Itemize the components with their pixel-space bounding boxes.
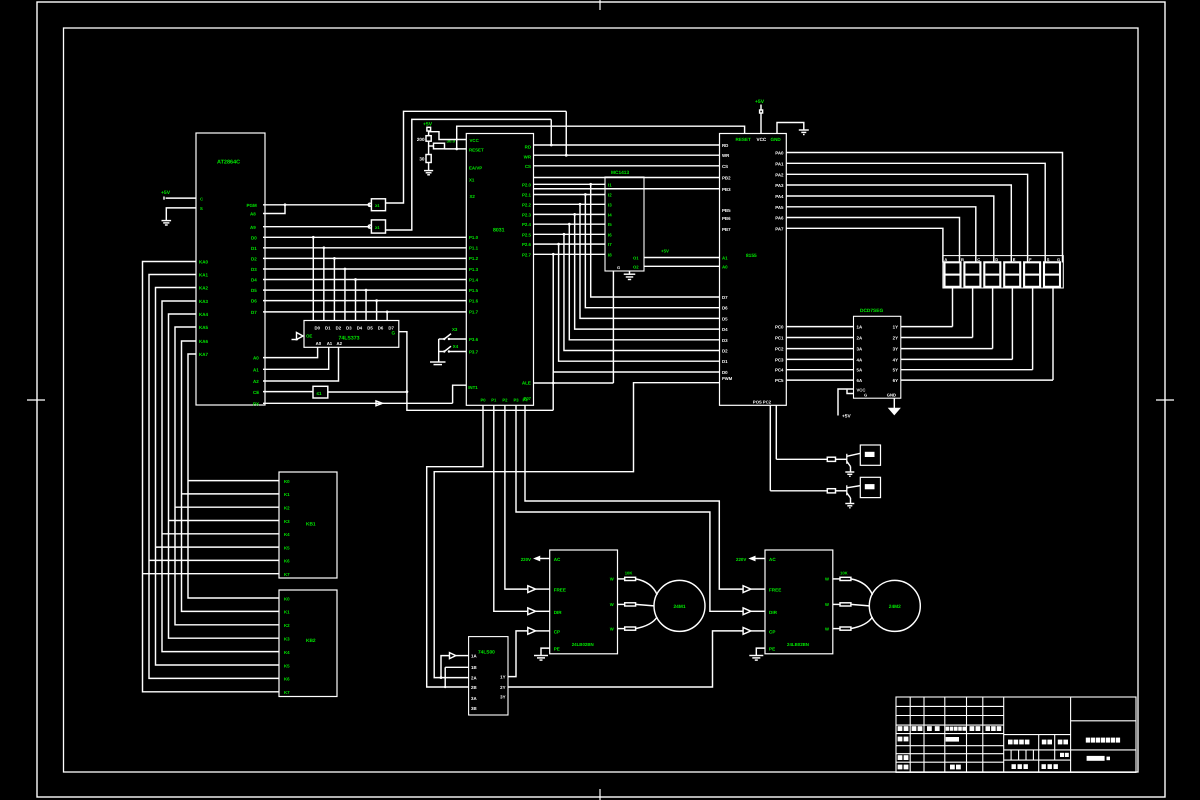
- svg-text:CE: CE: [253, 390, 259, 395]
- svg-text:G: G: [617, 265, 620, 270]
- svg-text:D1: D1: [325, 326, 331, 331]
- svg-text:PX: PX: [253, 402, 259, 407]
- svg-text:3Y: 3Y: [893, 347, 898, 352]
- svg-text:K1: K1: [284, 610, 290, 615]
- svg-text:GND: GND: [887, 393, 896, 398]
- svg-text:K7: K7: [284, 572, 290, 577]
- svg-text:24LB02BN: 24LB02BN: [572, 642, 594, 647]
- svg-text:1A: 1A: [471, 654, 477, 659]
- svg-text:G: G: [392, 331, 396, 336]
- svg-text:AT2864C: AT2864C: [217, 160, 240, 166]
- svg-text:3B: 3B: [471, 706, 477, 711]
- svg-text:P4: P4: [522, 398, 528, 403]
- svg-text:I6: I6: [608, 232, 612, 237]
- svg-text:P1.0: P1.0: [469, 235, 479, 240]
- svg-text:MC1413: MC1413: [611, 170, 629, 176]
- svg-text:RESET: RESET: [736, 137, 752, 142]
- svg-text:200: 200: [417, 137, 425, 142]
- svg-text:220V: 220V: [521, 557, 531, 562]
- svg-text:D7: D7: [251, 310, 257, 315]
- svg-text:A1: A1: [722, 256, 728, 261]
- svg-text:D0: D0: [722, 370, 728, 375]
- svg-text:I3: I3: [608, 202, 612, 207]
- svg-text:WR: WR: [524, 155, 532, 160]
- svg-text:2A: 2A: [471, 676, 477, 681]
- svg-text:24LB02BN: 24LB02BN: [787, 642, 809, 647]
- svg-text:≤1: ≤1: [317, 391, 323, 396]
- svg-text:DIR: DIR: [769, 610, 778, 615]
- svg-text:+5V: +5V: [842, 414, 851, 420]
- svg-text:I8: I8: [608, 252, 612, 257]
- svg-text:A1: A1: [327, 341, 333, 346]
- svg-text:6Y: 6Y: [893, 378, 898, 383]
- svg-text:DIR: DIR: [554, 610, 563, 615]
- svg-text:K2: K2: [284, 623, 290, 628]
- svg-text:K3: K3: [284, 519, 290, 524]
- svg-text:2Y: 2Y: [893, 336, 898, 341]
- svg-text:I4: I4: [608, 212, 612, 217]
- svg-text:KB2: KB2: [306, 638, 316, 644]
- svg-text:O1: O1: [633, 256, 639, 261]
- svg-text:P0: P0: [480, 398, 486, 403]
- svg-text:5A: 5A: [857, 368, 863, 373]
- svg-text:P2.5: P2.5: [522, 232, 532, 237]
- svg-text:5Y: 5Y: [893, 368, 898, 373]
- svg-text:K2: K2: [284, 506, 290, 511]
- svg-text:P1.2: P1.2: [469, 256, 479, 261]
- svg-text:220V: 220V: [736, 557, 746, 562]
- svg-text:C: C: [977, 257, 980, 262]
- svg-text:A0: A0: [722, 264, 728, 269]
- svg-text:E: E: [1013, 257, 1016, 262]
- svg-text:D: D: [995, 257, 998, 262]
- svg-text:PA7: PA7: [775, 226, 784, 231]
- svg-text:1Y: 1Y: [893, 325, 898, 330]
- svg-text:D3: D3: [722, 338, 728, 343]
- svg-text:CS: CS: [525, 164, 531, 169]
- svg-text:I2: I2: [608, 193, 612, 198]
- svg-text:PA3: PA3: [775, 183, 784, 188]
- svg-text:I5: I5: [608, 222, 612, 227]
- svg-text:S: S: [1047, 257, 1050, 262]
- svg-text:CP: CP: [554, 629, 560, 634]
- svg-text:PB2: PB2: [722, 176, 731, 181]
- svg-text:P2.4: P2.4: [522, 222, 532, 227]
- svg-text:≥1: ≥1: [375, 225, 380, 230]
- svg-text:PA1: PA1: [775, 161, 784, 166]
- svg-text:W: W: [610, 602, 614, 607]
- svg-text:A8: A8: [250, 212, 256, 217]
- svg-text:D0: D0: [251, 235, 257, 240]
- svg-text:ALE: ALE: [522, 381, 531, 386]
- svg-text:+5V: +5V: [161, 190, 171, 196]
- svg-text:K1: K1: [284, 492, 290, 497]
- svg-text:74LS00: 74LS00: [478, 650, 495, 656]
- svg-text:D6: D6: [251, 299, 257, 304]
- svg-text:KA5: KA5: [199, 325, 208, 330]
- svg-text:D3: D3: [251, 267, 257, 272]
- svg-text:P1.1: P1.1: [469, 246, 479, 251]
- svg-text:AC: AC: [554, 557, 561, 562]
- svg-text:P1: P1: [491, 398, 497, 403]
- svg-text:AC: AC: [769, 557, 776, 562]
- svg-text:D1: D1: [251, 246, 257, 251]
- svg-text:PC3: PC3: [775, 357, 784, 362]
- svg-text:PA2: PA2: [775, 172, 784, 177]
- svg-text:D4: D4: [722, 327, 728, 332]
- svg-text:8031: 8031: [493, 228, 505, 234]
- svg-text:C: C: [200, 196, 203, 201]
- svg-text:K4: K4: [284, 532, 290, 537]
- svg-text:S: S: [200, 206, 203, 211]
- svg-text:K0: K0: [284, 479, 290, 484]
- svg-text:PA4: PA4: [775, 194, 784, 199]
- svg-text:K4: K4: [284, 650, 290, 655]
- svg-text:30: 30: [419, 157, 425, 162]
- svg-text:10K: 10K: [625, 571, 633, 576]
- svg-text:≥1: ≥1: [375, 203, 380, 208]
- svg-text:D4: D4: [251, 278, 257, 283]
- svg-text:P2.7: P2.7: [522, 252, 532, 257]
- svg-text:CP: CP: [769, 629, 775, 634]
- svg-text:24M2: 24M2: [889, 604, 901, 610]
- svg-text:OE: OE: [306, 334, 312, 339]
- svg-text:PB5: PB5: [722, 208, 731, 213]
- svg-text:KA4: KA4: [199, 312, 208, 317]
- svg-text:PC1: PC1: [775, 336, 784, 341]
- svg-text:K5: K5: [284, 545, 290, 550]
- svg-text:D6: D6: [378, 326, 384, 331]
- svg-text:D5: D5: [251, 288, 257, 293]
- svg-text:P1.5: P1.5: [469, 288, 479, 293]
- svg-text:D0: D0: [315, 326, 321, 331]
- svg-text:+5V: +5V: [755, 99, 765, 105]
- svg-text:24M1: 24M1: [674, 604, 686, 610]
- svg-text:FREE: FREE: [769, 588, 781, 593]
- svg-text:A0: A0: [316, 341, 322, 346]
- svg-text:A0: A0: [253, 356, 259, 361]
- svg-text:CS: CS: [722, 164, 728, 169]
- svg-text:PB6: PB6: [722, 216, 731, 221]
- svg-text:P2.3: P2.3: [522, 212, 532, 217]
- svg-text:PC0: PC0: [775, 325, 784, 330]
- svg-text:PB3: PB3: [722, 187, 731, 192]
- svg-text:P1.4: P1.4: [469, 277, 479, 282]
- svg-text:P2: P2: [502, 398, 508, 403]
- svg-text:I7: I7: [608, 242, 612, 247]
- svg-text:D2: D2: [336, 326, 342, 331]
- svg-text:VCC: VCC: [470, 138, 480, 143]
- svg-text:PWM: PWM: [722, 376, 733, 381]
- svg-text:D5: D5: [367, 326, 373, 331]
- svg-text:KA6: KA6: [199, 339, 208, 344]
- svg-text:P3.6: P3.6: [469, 337, 479, 342]
- svg-text:KA0: KA0: [199, 260, 208, 265]
- svg-text:D2: D2: [251, 256, 257, 261]
- svg-text:EA/VP: EA/VP: [469, 166, 482, 171]
- svg-text:O2: O2: [633, 264, 639, 269]
- svg-text:W: W: [610, 577, 614, 582]
- svg-text:2Y: 2Y: [500, 685, 505, 690]
- svg-text:RD: RD: [525, 145, 531, 150]
- svg-text:W: W: [825, 626, 829, 631]
- svg-text:POS PC2: POS PC2: [753, 400, 772, 405]
- svg-text:D1: D1: [722, 359, 728, 364]
- svg-text:DCD7SEG: DCD7SEG: [860, 308, 883, 314]
- svg-text:PA0: PA0: [775, 151, 784, 156]
- svg-text:X1: X1: [469, 178, 475, 183]
- svg-text:PGM: PGM: [247, 203, 258, 208]
- svg-text:PE: PE: [554, 647, 560, 652]
- svg-text:PB7: PB7: [722, 227, 731, 232]
- svg-text:G: G: [864, 393, 867, 398]
- svg-text:P3: P3: [513, 398, 519, 403]
- svg-text:X4: X4: [453, 344, 459, 349]
- svg-text:A: A: [944, 257, 947, 262]
- svg-text:I1: I1: [608, 182, 612, 187]
- svg-text:K5: K5: [284, 663, 290, 668]
- svg-text:A9: A9: [250, 225, 256, 230]
- svg-text:1A: 1A: [857, 325, 863, 330]
- svg-text:K6: K6: [284, 677, 290, 682]
- svg-text:D7: D7: [722, 295, 728, 300]
- svg-text:2A: 2A: [857, 336, 863, 341]
- svg-text:A1: A1: [253, 367, 259, 372]
- svg-text:INT1: INT1: [468, 385, 478, 390]
- svg-text:PC5: PC5: [775, 378, 784, 383]
- svg-text:4A: 4A: [857, 357, 863, 362]
- svg-text:PC4: PC4: [775, 368, 784, 373]
- svg-text:P2.2: P2.2: [522, 202, 532, 207]
- svg-text:1B: 1B: [471, 665, 477, 670]
- svg-text:K7: K7: [284, 690, 290, 695]
- svg-text:GND: GND: [771, 137, 782, 142]
- svg-text:K6: K6: [284, 559, 290, 564]
- svg-text:P2.0: P2.0: [522, 182, 532, 187]
- svg-text:KA1: KA1: [199, 273, 208, 278]
- svg-text:P2.6: P2.6: [522, 242, 532, 247]
- svg-text:P1.6: P1.6: [469, 298, 479, 303]
- svg-text:3A: 3A: [471, 696, 477, 701]
- svg-text:FREE: FREE: [554, 588, 566, 593]
- svg-text:+5V: +5V: [661, 249, 669, 254]
- svg-text:PE: PE: [769, 647, 775, 652]
- svg-text:P1.3: P1.3: [469, 267, 479, 272]
- svg-text:PC2: PC2: [775, 347, 784, 352]
- svg-text:G: G: [1057, 257, 1060, 262]
- svg-text:3Y: 3Y: [500, 695, 505, 700]
- svg-text:6A: 6A: [857, 378, 863, 383]
- svg-text:8155: 8155: [746, 253, 757, 259]
- svg-text:2B: 2B: [471, 685, 477, 690]
- svg-text:W: W: [825, 577, 829, 582]
- svg-text:PA5: PA5: [775, 205, 784, 210]
- svg-text:10K: 10K: [840, 571, 848, 576]
- svg-text:P1.7: P1.7: [469, 310, 479, 315]
- svg-text:1Y: 1Y: [500, 675, 505, 680]
- svg-text:PA6: PA6: [775, 216, 784, 221]
- svg-text:X3: X3: [452, 327, 458, 332]
- svg-text:RD: RD: [722, 143, 728, 148]
- svg-text:P2.1: P2.1: [522, 193, 532, 198]
- svg-text:W: W: [825, 602, 829, 607]
- svg-text:D3: D3: [346, 326, 352, 331]
- svg-text:D2: D2: [722, 349, 728, 354]
- svg-text:KB1: KB1: [306, 522, 316, 528]
- svg-text:A2: A2: [253, 379, 259, 384]
- svg-text:A2: A2: [337, 341, 343, 346]
- svg-text:WR: WR: [722, 153, 730, 158]
- svg-text:K3: K3: [284, 637, 290, 642]
- svg-text:B: B: [961, 257, 964, 262]
- svg-text:4Y: 4Y: [893, 357, 898, 362]
- svg-text:VCC: VCC: [757, 137, 767, 142]
- svg-text:KA7: KA7: [199, 352, 208, 357]
- svg-text:KA3: KA3: [199, 299, 208, 304]
- svg-text:3A: 3A: [857, 347, 863, 352]
- svg-text:D5: D5: [722, 316, 728, 321]
- svg-text:KA2: KA2: [199, 286, 208, 291]
- svg-text:X2: X2: [470, 194, 476, 199]
- svg-text:RESET: RESET: [469, 148, 484, 153]
- svg-text:P3.7: P3.7: [469, 350, 479, 355]
- svg-text:K0: K0: [284, 596, 290, 601]
- svg-text:D4: D4: [357, 326, 363, 331]
- svg-text:W: W: [610, 626, 614, 631]
- svg-text:D6: D6: [722, 306, 728, 311]
